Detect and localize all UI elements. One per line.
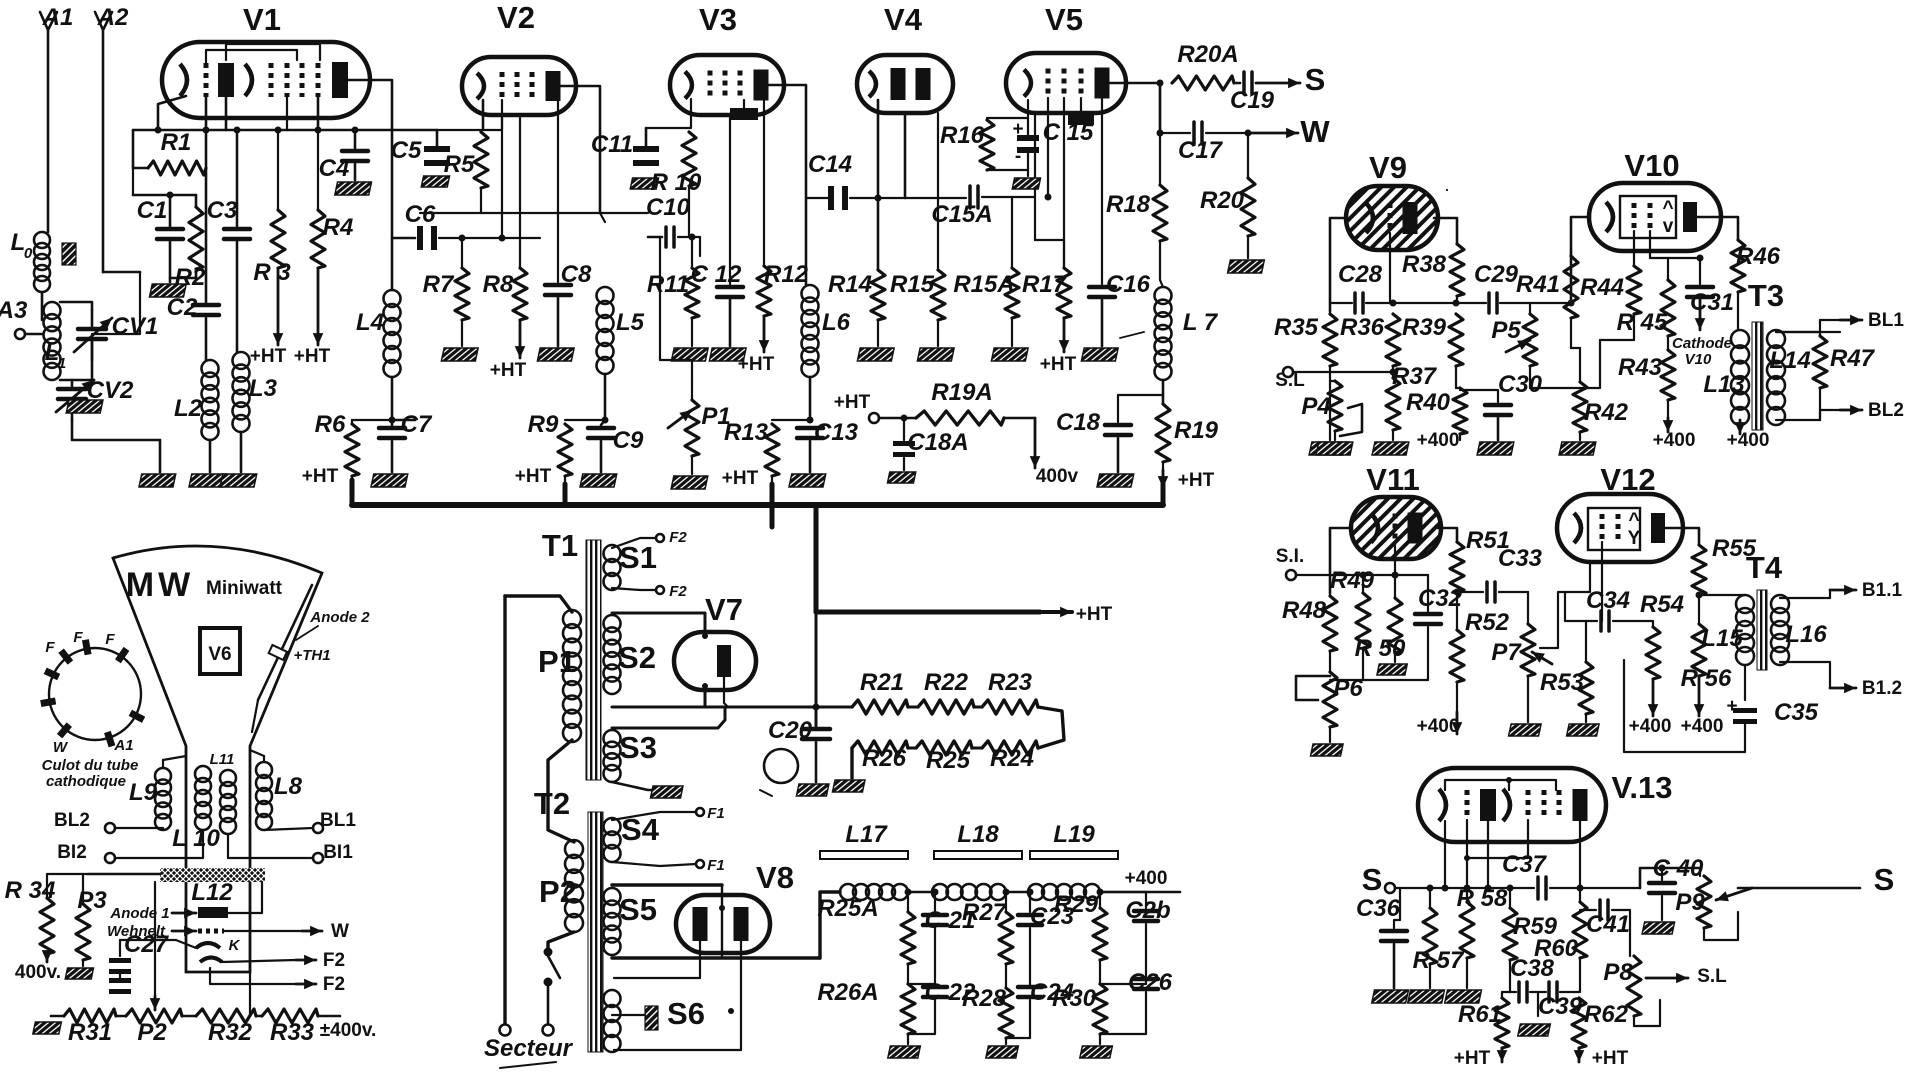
svg-text:S.I.: S.I.	[1276, 546, 1305, 567]
T2 secondary S5	[604, 888, 621, 905]
wire V13 cathode1 down	[1444, 821, 1446, 888]
wire anode1 right	[228, 882, 262, 913]
ground	[1311, 744, 1344, 756]
svg-text:+: +	[1726, 696, 1737, 717]
V10 anode	[1683, 202, 1697, 232]
wire	[60, 302, 92, 310]
wire V9 plate lead	[1434, 218, 1457, 244]
svg-text:C10: C10	[646, 194, 691, 221]
svg-text:R25A: R25A	[817, 895, 878, 922]
ground	[671, 348, 708, 361]
V12 inner box	[1588, 508, 1640, 550]
wire B1.1	[1780, 590, 1830, 598]
net 400v arrow	[1034, 418, 1037, 468]
potentiometer P2	[116, 1015, 126, 1018]
wire	[809, 377, 812, 420]
bus right end riser	[1161, 480, 1166, 505]
svg-text:W: W	[331, 921, 349, 942]
wire V9 left	[1330, 218, 1346, 311]
svg-text:-: -	[1015, 146, 1021, 167]
anode 1 electrode	[198, 907, 228, 918]
ground	[1012, 178, 1040, 189]
wire	[601, 374, 605, 425]
V12 anode	[1651, 513, 1665, 543]
wire	[1004, 417, 1035, 420]
V5 cathode	[1024, 70, 1031, 97]
wire V1 plate out	[348, 80, 392, 290]
V10 inner box	[1620, 196, 1676, 238]
wire V8 anode2 down	[614, 941, 741, 1050]
svg-text:Y: Y	[1628, 528, 1641, 549]
svg-text:R11: R11	[647, 271, 689, 298]
wire V13 grid1 down	[1466, 820, 1468, 902]
svg-text:R52: R52	[1465, 609, 1510, 636]
ground	[1080, 1046, 1113, 1058]
tube V11	[1351, 497, 1441, 559]
wire	[240, 432, 243, 472]
V13 internal top lead	[1445, 780, 1556, 790]
wire R18 bottom to L7	[1160, 280, 1163, 287]
svg-text:C13: C13	[814, 419, 859, 446]
svg-text:R7: R7	[423, 271, 455, 298]
wire	[1530, 302, 1571, 304]
svg-text:BL1: BL1	[1868, 310, 1904, 331]
transformer T3 secondary L14	[1767, 330, 1785, 348]
svg-text:+HT: +HT	[490, 360, 527, 381]
wire neck base to R33	[249, 972, 251, 1016]
svg-text:+400: +400	[1417, 430, 1460, 451]
svg-text:R53: R53	[1540, 669, 1585, 696]
wire grid bus y213	[420, 212, 648, 214]
HT rail arrow	[816, 610, 1040, 615]
wire V4 down 2	[904, 113, 907, 198]
svg-text:L4: L4	[356, 309, 384, 336]
coil L10	[220, 770, 236, 786]
tube V9	[1346, 186, 1438, 250]
tube V2	[462, 57, 576, 115]
bus riser left	[350, 480, 355, 505]
ground	[1097, 474, 1134, 487]
wire V1 cathode down	[158, 96, 186, 130]
spare circle	[764, 749, 798, 783]
wire	[612, 862, 696, 866]
ground	[986, 1046, 1019, 1058]
junction	[275, 127, 282, 134]
ground	[421, 176, 449, 187]
svg-text:R21: R21	[860, 669, 904, 696]
svg-text:+HT: +HT	[1454, 1048, 1491, 1069]
svg-text:R22: R22	[924, 669, 969, 696]
V1 internal top leads	[206, 50, 297, 63]
svg-text:V6: V6	[208, 644, 231, 665]
ground	[1372, 442, 1409, 455]
wire S6 link	[612, 1014, 645, 1016]
svg-text:R30: R30	[1052, 985, 1097, 1012]
svg-text:P3: P3	[77, 887, 107, 914]
svg-text:+400: +400	[1727, 430, 1770, 451]
transformer T4 winding L16	[1771, 595, 1789, 613]
svg-text:P4: P4	[1301, 393, 1330, 420]
svg-text:+400: +400	[1629, 716, 1672, 737]
svg-text:C 15: C 15	[1043, 119, 1094, 146]
small ground below V5	[1080, 98, 1082, 114]
wire heater F2	[222, 960, 296, 962]
svg-text:V5: V5	[1045, 2, 1083, 37]
anode 2 line	[258, 585, 312, 700]
svg-text:T3: T3	[1748, 278, 1784, 313]
ground	[917, 348, 954, 361]
V3 grid g1	[708, 71, 713, 100]
coil L18 screen bar	[934, 851, 1022, 859]
wire switch to Secteur	[547, 986, 550, 1025]
wire B1.2	[1780, 662, 1830, 688]
svg-text:W: W	[1300, 114, 1330, 149]
ground	[441, 348, 478, 361]
resistor R33	[256, 1015, 262, 1018]
svg-text:+HT: +HT	[294, 346, 331, 367]
wire R1-C1 bracket	[133, 194, 196, 197]
V4 anode 1	[891, 68, 906, 100]
V1 grid g4	[300, 63, 305, 97]
V10 grid 2	[1648, 203, 1653, 231]
V1 cathode	[180, 64, 187, 96]
V1 electrode plate 1	[218, 63, 234, 97]
ground	[888, 1046, 921, 1058]
svg-text:MW: MW	[126, 566, 194, 604]
V12 cathode	[1574, 513, 1581, 543]
wire grid bus to P1	[699, 237, 701, 256]
tube V13	[1418, 768, 1606, 842]
wire C31 top	[1668, 257, 1700, 259]
svg-text:R19A: R19A	[931, 379, 992, 406]
wire C39 mid to ground	[1537, 992, 1539, 1016]
wire V9 top to R38 etc	[1446, 189, 1448, 191]
tube V7	[674, 632, 756, 690]
V9 anode	[1403, 202, 1418, 234]
ground	[709, 348, 746, 361]
junction C4	[352, 127, 359, 134]
svg-text:V10: V10	[1685, 351, 1712, 368]
svg-text:C11: C11	[591, 131, 633, 158]
wire down from plate node	[1159, 83, 1161, 133]
V5 grid g3	[1079, 69, 1084, 98]
wire V9 cathode down	[1389, 233, 1391, 303]
svg-text:+HT: +HT	[1178, 470, 1215, 491]
svg-text:C5: C5	[391, 137, 422, 164]
coil L3	[233, 352, 250, 369]
wire HT drop continues	[815, 612, 818, 726]
V3 grid g2	[723, 71, 728, 100]
coil L5	[597, 287, 614, 304]
svg-text:cathodique: cathodique	[46, 773, 126, 790]
svg-text:R27: R27	[962, 899, 1008, 926]
wire V7 anode lead	[724, 677, 728, 707]
wire V11 left	[1330, 528, 1351, 593]
svg-text:R43: R43	[1618, 354, 1663, 381]
coil L19 screen bar	[1030, 851, 1118, 859]
wire S5 bottom to L17 riser	[612, 956, 820, 959]
svg-text:K: K	[229, 937, 241, 954]
T2 secondary S6	[604, 990, 621, 1007]
wire V13 grid shelf	[1467, 820, 1528, 858]
svg-text:C15A: C15A	[931, 201, 992, 228]
T3 core	[1752, 322, 1763, 430]
svg-text:C29: C29	[1474, 261, 1519, 288]
V8 anode 1	[693, 907, 708, 941]
terminal F2 top	[656, 534, 664, 542]
V10 cathode	[1606, 202, 1613, 232]
svg-text:C16: C16	[1106, 271, 1151, 298]
svg-text:A3: A3	[0, 297, 28, 324]
svg-text:L17: L17	[845, 821, 888, 848]
svg-text:C14: C14	[808, 151, 852, 178]
wire	[159, 440, 162, 472]
socle pins	[85, 640, 88, 655]
V9 cathode	[1366, 203, 1373, 233]
V5 grid g1	[1046, 69, 1051, 98]
wire V7 bottom bus	[612, 706, 852, 709]
svg-text:Cathode: Cathode	[1672, 335, 1732, 352]
svg-text:R20A: R20A	[1177, 41, 1238, 68]
wire C25 C26 join	[1100, 983, 1146, 985]
wire grid1 down	[501, 115, 503, 238]
svg-text:R31: R31	[68, 1019, 112, 1046]
svg-text:P7: P7	[1491, 639, 1522, 666]
ground	[650, 786, 683, 798]
T1 secondary S2	[604, 615, 621, 632]
svg-text:BI1: BI1	[323, 842, 353, 863]
coil L19	[1028, 884, 1044, 900]
V2 grid g3	[530, 72, 535, 100]
ground	[189, 474, 226, 487]
svg-text:C9: C9	[613, 427, 644, 454]
svg-text:L12: L12	[191, 879, 233, 906]
ground	[991, 348, 1028, 361]
svg-text:L16: L16	[1785, 621, 1827, 648]
variable capacitor CV1	[91, 310, 94, 326]
svg-text:R54: R54	[1640, 591, 1684, 618]
wire	[439, 237, 540, 239]
wire P7 wiper to V12	[1540, 540, 1590, 648]
svg-text:L19: L19	[1053, 821, 1095, 848]
wire C11-R10 bracket	[645, 128, 648, 148]
svg-text:R29: R29	[1054, 891, 1099, 918]
svg-text:+HT: +HT	[738, 354, 775, 375]
wire P5 bottom loop	[1530, 340, 1600, 388]
wire C34 left	[1564, 592, 1566, 621]
T4 core	[1757, 590, 1767, 670]
wire L12 left	[88, 873, 160, 876]
svg-text:V10: V10	[1624, 148, 1679, 183]
ground	[65, 968, 93, 979]
svg-text:A2: A2	[97, 4, 129, 31]
coil L6	[802, 285, 819, 302]
V13 anode 1	[1480, 789, 1496, 821]
svg-text:C39: C39	[1538, 993, 1583, 1020]
wire	[115, 828, 163, 830]
tube V8	[676, 895, 770, 953]
svg-text:R38: R38	[1402, 251, 1447, 278]
arrow to W	[1206, 132, 1248, 134]
ground	[1642, 922, 1675, 934]
svg-text:T1: T1	[542, 528, 578, 563]
svg-text:R1: R1	[161, 129, 192, 156]
wire R16-C15 bracket	[987, 100, 1028, 118]
wire V5 g2 down	[1063, 98, 1065, 268]
svg-text:C6: C6	[405, 201, 436, 228]
P4 wiper loop	[1340, 404, 1362, 436]
coil L0	[34, 232, 50, 248]
svg-text:A1: A1	[42, 4, 74, 31]
svg-text:C36: C36	[1356, 895, 1401, 922]
svg-text:S6: S6	[667, 996, 705, 1031]
wire R17 top to C16	[1035, 240, 1064, 268]
svg-text:R48: R48	[1282, 597, 1327, 624]
wire	[982, 113, 1035, 197]
wire S2 top bracket to V7 grid	[612, 613, 705, 707]
svg-text:Culot du tube: Culot du tube	[42, 757, 139, 774]
svg-text:400v: 400v	[1036, 466, 1079, 487]
V1 grid g3	[285, 63, 290, 97]
ground	[371, 474, 408, 487]
arrow to S	[1256, 82, 1300, 85]
wire	[25, 333, 43, 336]
ground	[832, 780, 865, 792]
svg-text:R5: R5	[444, 151, 475, 178]
wire V11 plate	[1438, 528, 1457, 542]
svg-text:V3: V3	[699, 2, 737, 37]
wire anode2 lower	[252, 700, 258, 732]
svg-text:P2: P2	[539, 874, 577, 909]
V3 anode	[754, 70, 769, 101]
svg-text:BL2: BL2	[1868, 400, 1904, 421]
svg-text:+HT: +HT	[250, 346, 287, 367]
ground	[1372, 990, 1409, 1003]
svg-text:R47: R47	[1830, 345, 1876, 372]
T2 secondary S4	[604, 818, 621, 835]
svg-text:R 58: R 58	[1457, 885, 1508, 912]
wire	[41, 292, 44, 320]
wire	[1393, 302, 1457, 304]
svg-text:L18: L18	[957, 821, 999, 848]
svg-text:V7: V7	[705, 592, 743, 627]
V1 cathode 2	[245, 64, 252, 96]
svg-text:F1: F1	[707, 805, 725, 822]
T1 secondary S1	[604, 545, 621, 562]
V13 anode 2	[1573, 789, 1588, 821]
cathode K	[196, 943, 220, 948]
wire R25A C21 join	[908, 983, 935, 985]
bus riser mid	[563, 484, 568, 505]
ground	[630, 178, 658, 189]
svg-text:R8: R8	[483, 271, 514, 298]
wire grid1 down	[205, 97, 208, 213]
svg-text:S3: S3	[619, 730, 657, 765]
svg-text:C37: C37	[1502, 851, 1548, 878]
svg-text:T2: T2	[534, 786, 570, 821]
wire	[1006, 891, 1030, 894]
tube V4	[857, 55, 953, 113]
svg-text:V1: V1	[243, 2, 281, 37]
S6 hatched box	[645, 1006, 658, 1030]
wire heater F2b	[210, 968, 296, 984]
svg-text:V2: V2	[497, 0, 535, 35]
svg-text:R15: R15	[890, 271, 935, 298]
resistor R31	[51, 1015, 64, 1018]
coil L12 (hatched bar)	[160, 868, 265, 882]
wire	[228, 834, 313, 858]
svg-text:BI2: BI2	[57, 842, 87, 863]
V12 grid 1	[1600, 514, 1605, 542]
V3 grid g3	[738, 71, 743, 100]
svg-text:S1: S1	[619, 540, 657, 575]
terminal Secteur 1	[500, 1025, 511, 1036]
wire	[392, 377, 415, 420]
bus drop to HT rail	[814, 505, 819, 612]
coil L8	[256, 762, 272, 778]
V11 anode	[1408, 513, 1423, 544]
svg-text:+: +	[1012, 119, 1023, 140]
wire S.I. to grid	[1296, 574, 1395, 576]
wire	[92, 272, 140, 334]
wire P2 wiper	[154, 882, 156, 996]
V11 grid	[1393, 514, 1398, 543]
svg-text:L 10: L 10	[172, 825, 220, 852]
antenna A2	[102, 30, 105, 272]
svg-text:R33: R33	[270, 1019, 315, 1046]
wehnelt electrode	[198, 929, 224, 934]
svg-text:R14: R14	[828, 271, 872, 298]
svg-text:+TH1: +TH1	[293, 647, 330, 664]
ground	[66, 400, 103, 413]
svg-text:C3: C3	[207, 197, 238, 224]
T1 core	[586, 540, 601, 780]
V1 grid g5	[316, 63, 321, 97]
wire S5 top bracket	[612, 883, 722, 886]
svg-text:R20: R20	[1200, 187, 1245, 214]
coil L7	[1155, 287, 1172, 304]
svg-text:S.L: S.L	[1697, 966, 1727, 987]
svg-text:+HT: +HT	[722, 468, 759, 489]
coil L17 screen bar	[820, 851, 908, 859]
wire S to grid	[1395, 887, 1534, 889]
wire g3 down	[286, 97, 288, 130]
wire	[612, 588, 656, 590]
V2 grid g1	[500, 72, 505, 100]
HT bus main	[352, 502, 1163, 508]
svg-text:R 45: R 45	[1617, 309, 1668, 336]
svg-text:L3: L3	[249, 375, 278, 402]
svg-text:CV1: CV1	[112, 313, 159, 340]
wire V12 plate out	[1665, 528, 1699, 545]
svg-text:C27: C27	[124, 931, 170, 958]
wire V5 plate to L7	[1159, 83, 1162, 133]
svg-text:F: F	[105, 631, 115, 648]
wire	[1395, 574, 1428, 576]
V6 box	[200, 628, 240, 674]
wire C27 top	[120, 940, 196, 948]
wire C32 to P6	[1330, 679, 1340, 681]
node main AVC line	[133, 129, 437, 132]
svg-text:R 57: R 57	[1413, 947, 1465, 974]
svg-text:R35: R35	[1274, 314, 1319, 341]
svg-text:V11: V11	[1366, 462, 1419, 497]
V1 grid g1	[204, 63, 209, 97]
V1 grid g2	[269, 63, 274, 97]
bus stub	[770, 505, 775, 527]
svg-text:Anode 1: Anode 1	[109, 905, 169, 922]
wire T3 bottom +400	[1739, 425, 1741, 432]
